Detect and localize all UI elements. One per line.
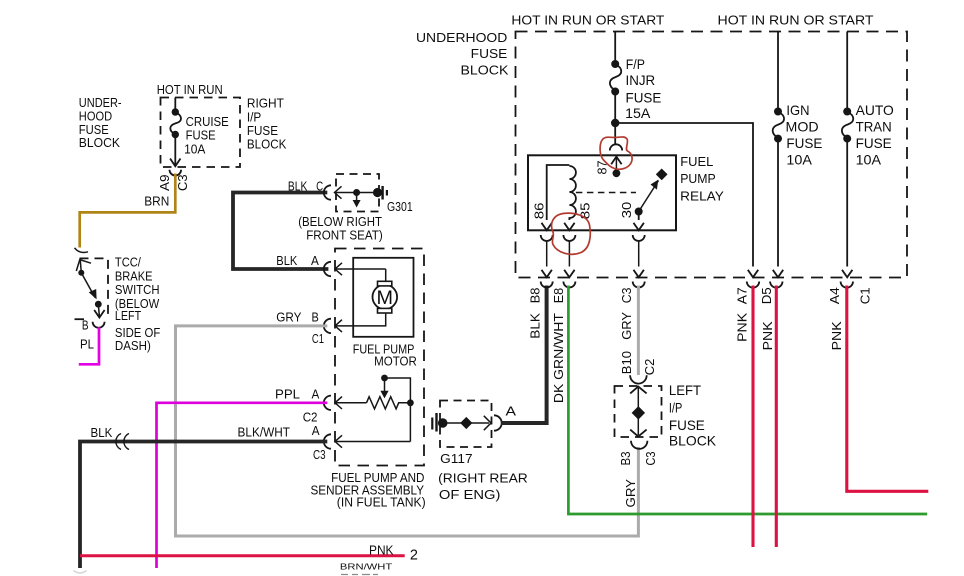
- svg-text:E8: E8: [551, 288, 566, 304]
- wire DK GRN/WHT E8 (green): [551, 286, 927, 515]
- label HOT IN RUN OR START (x2): [511, 12, 873, 27]
- svg-text:PUMP: PUMP: [680, 171, 716, 186]
- svg-text:15A: 15A: [625, 106, 651, 121]
- svg-text:BRAKE: BRAKE: [115, 268, 153, 283]
- wire labels BLK B8: [528, 288, 543, 339]
- switch TCC/BRAKE (dashed box, arm, contacts): [75, 258, 109, 319]
- label BLK/WHT A / C3: [238, 423, 326, 462]
- svg-text:BLK: BLK: [276, 253, 297, 268]
- wire PL (magenta stub): [79, 327, 99, 364]
- svg-text:FUEL: FUEL: [680, 154, 713, 169]
- svg-text:C3: C3: [643, 452, 658, 466]
- svg-text:SWITCH: SWITCH: [115, 282, 160, 297]
- wire feed to PNK A7: [615, 123, 758, 277]
- svg-text:BLOCK: BLOCK: [461, 63, 509, 78]
- svg-text:GRY: GRY: [623, 479, 638, 508]
- label TCC/BRAKE SWITCH (BELOW LEFT SIDE OF DASH): [115, 255, 160, 353]
- fuse CRUISE FUSE 10A: [170, 98, 229, 167]
- annotation: red circle around 87 connector: [600, 137, 632, 169]
- wire PPL (magenta): [157, 403, 328, 568]
- svg-text:PNK: PNK: [760, 321, 775, 350]
- svg-text:OF ENG): OF ENG): [439, 487, 501, 502]
- connector B/C1 at fuel pump motor: [276, 309, 342, 346]
- connector 87 above relay: [595, 123, 623, 177]
- svg-text:TRAN: TRAN: [856, 119, 892, 134]
- svg-text:F/P: F/P: [626, 57, 645, 72]
- svg-text:AUTO: AUTO: [856, 103, 894, 118]
- svg-text:G301: G301: [387, 199, 413, 214]
- svg-text:BRN: BRN: [144, 194, 169, 209]
- connector A at fuel pump motor: [324, 262, 386, 276]
- svg-text:BLK: BLK: [288, 179, 308, 194]
- svg-text:C1: C1: [857, 287, 872, 304]
- svg-text:UNDERHOOD: UNDERHOOD: [416, 30, 507, 45]
- fuse F/P INJR FUSE 15A: [610, 32, 661, 124]
- svg-text:RELAY: RELAY: [680, 189, 724, 204]
- connector A/C2 at sender: [324, 396, 367, 410]
- wire PNK 2 (bottom): [80, 542, 418, 563]
- svg-text:FUSE: FUSE: [186, 128, 216, 143]
- svg-text:85: 85: [577, 203, 592, 220]
- svg-text:LEFT: LEFT: [669, 383, 702, 398]
- svg-text:TCC/: TCC/: [115, 255, 141, 270]
- svg-text:PNK: PNK: [369, 542, 394, 557]
- svg-text:C1: C1: [312, 331, 324, 346]
- svg-text:10A: 10A: [184, 142, 206, 157]
- svg-text:A4: A4: [827, 287, 842, 304]
- svg-text:2: 2: [410, 548, 418, 564]
- svg-text:MOTOR: MOTOR: [374, 353, 417, 368]
- svg-text:(IN FUEL TANK): (IN FUEL TANK): [337, 495, 426, 510]
- svg-text:10A: 10A: [856, 152, 882, 167]
- label (BELOW RIGHT FRONT SEAT): [298, 214, 383, 243]
- wire PNK A4/C1: [827, 286, 928, 492]
- connector at TCC switch top: [75, 248, 89, 253]
- label FUEL PUMP MOTOR: [353, 341, 417, 368]
- wire BRN: [80, 174, 176, 248]
- svg-text:(RIGHT REAR: (RIGHT REAR: [438, 471, 528, 486]
- svg-text:FUSE: FUSE: [856, 136, 892, 151]
- wire BLK/WHT (thick) with inline connector and bottom BLK wire: [80, 425, 327, 568]
- fuse IGN MOD FUSE 10A: [773, 32, 823, 278]
- svg-text:HOT IN RUN: HOT IN RUN: [157, 82, 223, 97]
- svg-text:C3: C3: [619, 288, 634, 304]
- svg-text:30: 30: [619, 202, 634, 219]
- svg-text:GRY: GRY: [276, 309, 301, 324]
- underhood fuse block label (right): [416, 30, 509, 78]
- svg-text:DK GRN/WHT: DK GRN/WHT: [551, 313, 566, 403]
- svg-text:FUSE: FUSE: [471, 46, 508, 61]
- svg-text:LEFT: LEFT: [115, 308, 141, 323]
- svg-text:A7: A7: [735, 287, 750, 304]
- svg-text:86: 86: [532, 203, 547, 220]
- connectors below relay + wires to box edge: [541, 235, 645, 277]
- svg-text:I/P: I/P: [669, 400, 682, 415]
- relay coil 86/85: [532, 165, 593, 230]
- svg-text:M: M: [377, 288, 394, 309]
- relay link (dashed): [576, 192, 636, 194]
- svg-text:PL: PL: [80, 337, 94, 352]
- svg-text:B: B: [82, 317, 89, 332]
- svg-text:FUSE: FUSE: [786, 136, 822, 151]
- faint cut text at bottom edge: [341, 574, 378, 576]
- svg-text:BLOCK: BLOCK: [79, 135, 121, 150]
- annotation: red circle around 85/86 connectors: [552, 213, 591, 254]
- svg-text:FRONT SEAT): FRONT SEAT): [306, 228, 383, 243]
- svg-text:(BELOW RIGHT: (BELOW RIGHT: [298, 214, 382, 229]
- svg-text:PNK: PNK: [735, 313, 750, 342]
- svg-text:GRY: GRY: [619, 312, 634, 340]
- svg-text:BRN/WHT: BRN/WHT: [340, 562, 393, 571]
- svg-text:B3: B3: [618, 452, 633, 466]
- wire BLK C (thick): [233, 179, 328, 270]
- underhood fuse block label (left): [79, 95, 122, 150]
- svg-text:RIGHT: RIGHT: [247, 96, 284, 111]
- svg-text:FUSE: FUSE: [669, 418, 705, 433]
- label PPL A / C2: [275, 387, 320, 425]
- connector B3/C3 below LEFT I/P: [618, 441, 658, 508]
- svg-text:DASH): DASH): [115, 338, 151, 353]
- svg-text:BLK: BLK: [91, 425, 113, 440]
- wire GRY (motor B to LEFT I/P, long route): [176, 326, 639, 536]
- label BLK A: [276, 253, 319, 268]
- fuel pump assembly dashed box: [335, 249, 424, 466]
- svg-text:HOT IN RUN OR START: HOT IN RUN OR START: [511, 12, 664, 27]
- connector B/PL below TCC switch: [80, 317, 105, 351]
- node: junction below F/P fuse: [611, 119, 619, 127]
- svg-text:IGN: IGN: [786, 103, 809, 118]
- resistor: fuel level sender: [367, 375, 414, 442]
- svg-text:B10: B10: [619, 351, 634, 374]
- motor M (fuel pump motor): [335, 258, 414, 337]
- relay box: FUEL PUMP RELAY: [528, 155, 676, 230]
- svg-text:HOT IN RUN OR START: HOT IN RUN OR START: [718, 12, 874, 27]
- connector A9/C3 below cruise fuse: [157, 170, 190, 191]
- svg-text:D5: D5: [759, 287, 774, 304]
- ground G301 (dashed box, node, ground symbol): [336, 174, 413, 214]
- wire PNK A7: [735, 286, 754, 548]
- underhood fuse block dashed box (right): [516, 32, 908, 278]
- fuse block box: RIGHT I/P FUSE BLOCK (dashed): [161, 98, 241, 168]
- label FUEL PUMP AND SENDER ASSEMBLY (IN FUEL TANK): [311, 470, 426, 510]
- inline connector at LEFT I/P top: [630, 375, 647, 383]
- svg-text:C3: C3: [313, 447, 326, 462]
- svg-text:BLK/WHT: BLK/WHT: [238, 425, 291, 440]
- svg-text:10A: 10A: [786, 152, 812, 167]
- svg-text:B8: B8: [528, 288, 543, 304]
- exit connectors below underhood box: [541, 282, 853, 288]
- svg-text:BLOCK: BLOCK: [247, 136, 287, 151]
- svg-text:C3: C3: [175, 174, 190, 191]
- connector C at G301: [324, 185, 357, 199]
- wire GRY C3 (gray, relay 30 down): [619, 286, 657, 376]
- svg-text:BLOCK: BLOCK: [669, 434, 717, 449]
- svg-text:A: A: [506, 404, 517, 419]
- connector A/C3 at sender: [324, 434, 411, 448]
- faint ghost connector below BLK wire end: [74, 571, 87, 574]
- svg-text:INJR: INJR: [626, 73, 656, 88]
- fuse block: LEFT I/P FUSE BLOCK: [615, 383, 717, 448]
- wire PNK D5: [759, 286, 776, 548]
- svg-text:A: A: [312, 387, 320, 402]
- svg-text:PPL: PPL: [275, 387, 300, 402]
- label FUEL PUMP RELAY: [680, 154, 724, 204]
- relay switch 30: [619, 169, 667, 231]
- svg-text:FUSE: FUSE: [626, 90, 662, 105]
- svg-text:C2: C2: [642, 359, 657, 376]
- svg-text:BLK: BLK: [528, 313, 543, 339]
- ground G117: [432, 401, 528, 503]
- svg-text:G117: G117: [440, 451, 472, 466]
- svg-text:MOD: MOD: [786, 119, 819, 134]
- svg-text:PNK: PNK: [829, 321, 844, 350]
- svg-text:C: C: [316, 179, 323, 194]
- svg-text:A: A: [311, 253, 319, 268]
- fuse AUTO TRAN FUSE 10A: [842, 32, 894, 278]
- svg-text:A9: A9: [157, 174, 172, 191]
- label RIGHT I/P FUSE BLOCK: [247, 96, 287, 152]
- svg-text:A: A: [312, 423, 320, 438]
- wire BLK B8 (thick, G117 to fuse block): [501, 286, 547, 424]
- svg-text:B: B: [312, 309, 319, 324]
